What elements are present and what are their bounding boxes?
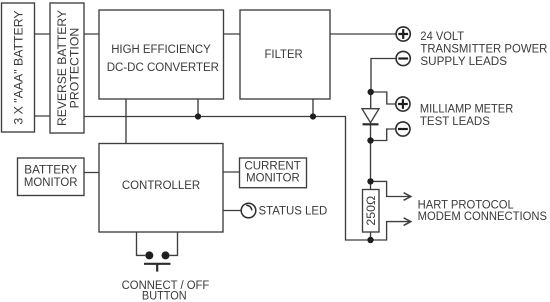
svg-text:MONITOR: MONITOR: [24, 175, 78, 189]
svg-text:BUTTON: BUTTON: [142, 289, 187, 302]
svg-text:CONTROLLER: CONTROLLER: [122, 178, 200, 192]
svg-text:MODEM CONNECTIONS: MODEM CONNECTIONS: [418, 209, 547, 223]
svg-text:STATUS LED: STATUS LED: [259, 204, 328, 218]
svg-text:HIGH EFFICIENCY: HIGH EFFICIENCY: [111, 42, 211, 56]
svg-text:250Ω: 250Ω: [364, 196, 378, 226]
svg-text:MONITOR: MONITOR: [246, 171, 300, 185]
svg-text:PROTECTION: PROTECTION: [67, 28, 81, 109]
svg-text:TEST LEADS: TEST LEADS: [420, 114, 490, 128]
svg-text:3 X "AAA" BATTERY: 3 X "AAA" BATTERY: [11, 10, 25, 124]
svg-text:SUPPLY LEADS: SUPPLY LEADS: [420, 54, 507, 68]
svg-text:DC-DC CONVERTER: DC-DC CONVERTER: [107, 60, 219, 74]
svg-text:FILTER: FILTER: [265, 47, 303, 61]
